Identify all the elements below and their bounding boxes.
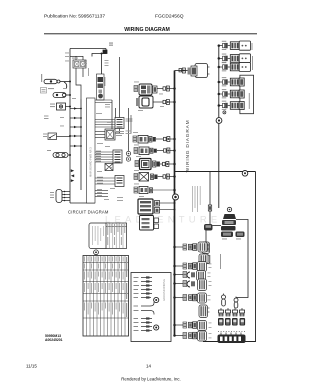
row E: drain pump y190 — [134, 187, 176, 194]
labels group5 — [97, 177, 103, 184]
component: prong plug row — [219, 308, 245, 317]
component: thermostat B1 — [53, 93, 70, 98]
component: switch S1 hook — [64, 82, 67, 88]
svg-text:WIRING DIAGRAM: WIRING DIAGRAM — [185, 120, 191, 173]
label: CN8 tiny — [50, 192, 54, 193]
wire: relay drop 1 — [76, 68, 81, 99]
label: left box near motor — [41, 88, 47, 94]
label: S2 tiny — [50, 104, 55, 105]
row C: heater relay y164 — [135, 159, 176, 170]
svg-text:14: 14 — [146, 364, 152, 369]
motor stack: top ring — [227, 207, 231, 211]
row BL2 y266 — [173, 262, 206, 272]
wire: stack to V1 — [236, 220, 248, 298]
labels under stack — [222, 238, 241, 241]
contact arrows on bus L1 — [71, 169, 74, 182]
svg-text:CIRCUIT DIAGRAM: CIRCUIT DIAGRAM — [68, 210, 109, 215]
svg-text:Publication No: 5995671137: Publication No: 5995671137 — [44, 14, 105, 20]
wire: riser x115.5 — [115, 108, 117, 122]
component: indicator lamp H2 — [126, 157, 130, 161]
svg-text:A00245201: A00245201 — [45, 338, 63, 342]
component: thermal fuse capsule 1 — [222, 294, 226, 307]
connector: valve inline — [179, 68, 185, 73]
row TR1 y45.6 — [218, 41, 251, 50]
wire: riser x119.5 — [115, 57, 120, 133]
row A: thermistor y139 — [133, 136, 176, 144]
wire: trunk main harness — [174, 71, 176, 336]
component: compressor relay cyl — [202, 242, 210, 254]
board pin stubs group 6 — [95, 191, 108, 197]
wire: top right bus — [218, 46, 220, 118]
board pin stubs group 1 — [95, 100, 112, 103]
label: S3 tiny — [44, 116, 49, 120]
connector: mid drop inline — [208, 205, 211, 211]
wire: dashed row — [218, 331, 245, 333]
row TR5 y94.0 — [218, 90, 245, 98]
wire: top horizontal run — [70, 48, 106, 50]
wire: riser x112 — [111, 100, 113, 129]
label: motor tiny — [41, 74, 42, 82]
label: K1 tiny — [72, 58, 78, 59]
svg-text:WIRING DIAGRAM: WIRING DIAGRAM — [124, 27, 170, 33]
board pin stubs group 2: pressure switch — [95, 120, 115, 128]
labels: BL rows pin ticks — [208, 264, 212, 339]
labels: scattered CD tiny text — [60, 60, 132, 200]
header rule — [44, 33, 257, 35]
wire: relay drop 2 — [82, 68, 84, 77]
component: aux board below row F — [140, 216, 159, 231]
label: notes column vertical — [192, 186, 201, 212]
labels TR3 — [222, 62, 227, 71]
wire: horizontal run y171.5 — [175, 171, 256, 173]
component: line filter column — [97, 74, 105, 100]
row BL1: wash pump y247 — [173, 242, 209, 252]
motor stack: seg3 — [221, 226, 236, 231]
component: sensor block CN3 — [105, 129, 115, 140]
label: top right tiny BLK/WHT — [109, 43, 113, 44]
row F: control UI board y200-213 — [138, 199, 176, 214]
row: dispenser motor y88 — [134, 84, 176, 95]
wire: board bottom — [70, 202, 95, 204]
svg-text:GROUND WIRING: GROUND WIRING — [162, 279, 166, 301]
label: pressure switch — [126, 119, 133, 120]
component: pressure switch header CN2 — [115, 118, 124, 129]
label: high pressure sensor — [116, 131, 124, 132]
node: bus inline ring — [216, 118, 222, 124]
node: top joint dot — [101, 53, 103, 55]
row BL3 y274.5 — [173, 271, 205, 281]
row BL5 y297.5 — [173, 293, 206, 303]
component: fuse glyph top — [103, 50, 107, 54]
wire: secondary bus L2 — [80, 99, 82, 190]
component: overload conn — [202, 255, 210, 264]
labels: center rows tiny — [133, 82, 164, 197]
node: trunk junction ring — [173, 194, 179, 200]
labels TR6 — [222, 101, 227, 110]
label: tiny under CN5 — [117, 197, 123, 201]
arrowheads on stubs — [74, 107, 77, 147]
component: terminal header CN4 — [113, 150, 122, 163]
component: varistor X1 — [105, 164, 113, 171]
wire: right drop V2 — [203, 172, 256, 342]
component: door switch S5 — [53, 153, 70, 158]
motor stack: seg1 — [223, 214, 236, 219]
label: S4 tiny — [43, 134, 47, 135]
note box — [89, 223, 108, 249]
component: door lock switch S2 — [57, 103, 71, 110]
label: B1 tiny — [48, 88, 54, 89]
component: condenser fan motor — [204, 211, 221, 243]
component: main board PWB outline — [87, 98, 96, 203]
symbol: small circled dot — [223, 111, 226, 114]
node: ring on run — [242, 171, 248, 177]
row BL6 y325 — [173, 321, 206, 331]
row D: vent fan y176.5 — [134, 173, 176, 182]
wire: bus continuation to motor stack — [218, 123, 220, 208]
label: vertical harness text — [220, 254, 221, 269]
wire: lamp riser — [128, 108, 130, 151]
mini table — [106, 223, 127, 249]
component: connector CN8 4-pin — [56, 190, 70, 203]
row B: turbidity sensor y150.5 — [134, 147, 176, 155]
label: S5 tiny — [47, 150, 51, 151]
label: right of TR2-3 boxes — [252, 56, 253, 70]
label: dispenser vertical — [249, 93, 250, 109]
svg-text:MAIN BOARD PWB NR 3: MAIN BOARD PWB NR 3 — [89, 147, 93, 177]
component: connector CN5 — [115, 176, 124, 187]
wire: mid drop x210 — [209, 172, 211, 206]
component: dark module row — [218, 318, 245, 326]
component: tall cyl alone y311 — [199, 305, 210, 318]
row BL4 y283.5 — [173, 279, 206, 291]
board pin stubs group 3 — [95, 132, 105, 138]
row BL7 y335.5 — [173, 331, 206, 341]
pin stubs with arrows from bus to board — [70, 109, 81, 147]
component: thermal fuse capsule 2 — [234, 297, 238, 309]
board pin stubs group 4: mains in — [95, 152, 113, 162]
row TR6 y105.5 — [218, 102, 245, 110]
symbol: circled ground — [94, 250, 99, 255]
labels TR5 — [222, 89, 227, 98]
motor stack: pair left — [221, 232, 233, 238]
labels TR2 — [222, 54, 227, 63]
ticks: bus top labels — [65, 53, 69, 62]
component: heater cyl alone y258 — [199, 254, 210, 264]
component: drive motor M1 — [44, 79, 70, 83]
motor stack: pair right — [236, 232, 245, 238]
component: water valve assembly — [188, 64, 210, 78]
svg-text:FGCD2456Q: FGCD2456Q — [155, 14, 184, 20]
svg-text:11/15: 11/15 — [26, 364, 37, 369]
labels TR1 — [222, 41, 227, 50]
row TR2 y58.4 — [218, 54, 251, 63]
component: dispenser box — [240, 75, 254, 114]
wire: lamp riser 2 — [130, 115, 132, 133]
svg-text:Rendered by LeadVenture, Inc.: Rendered by LeadVenture, Inc. — [121, 377, 180, 382]
component: interlock contact block K1 — [70, 56, 86, 68]
labels group6 — [97, 189, 102, 196]
component: pressure switch S3 — [48, 133, 70, 140]
row TR4 y82.0 — [218, 78, 245, 86]
board pin stubs group 5 — [95, 178, 115, 184]
row: pump motor y102 — [136, 96, 176, 108]
row TR3 y67.0 — [218, 63, 251, 72]
wire: capsule2 link — [236, 297, 240, 299]
component: terminal block — [218, 333, 246, 344]
wire: valve to trunk — [175, 70, 188, 72]
label: right of TR1 box — [252, 43, 253, 50]
motor stack: seg2 — [222, 220, 236, 225]
labels: L1_IN etc — [96, 151, 101, 162]
node dots on bus L2 — [80, 108, 82, 147]
node dots on left bus — [69, 81, 71, 157]
wire: top right jog — [92, 49, 106, 57]
component: indicator lamp H1 — [126, 151, 130, 155]
wire: main left bus L1 — [69, 49, 71, 204]
labels TR4 — [222, 77, 227, 86]
